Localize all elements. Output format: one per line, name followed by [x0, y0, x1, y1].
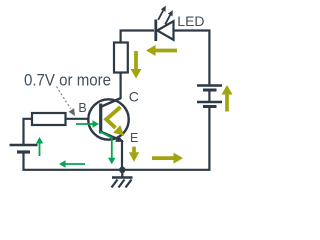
wire: top resistor to LED cathode: [121, 31, 154, 44]
transistor base bar: [99, 104, 102, 134]
wire: base resistor left to left battery top: [24, 119, 34, 144]
base current arrow up (beside left battery): [36, 137, 43, 156]
LED cathode bar: [154, 20, 157, 42]
wire: LED anode to right battery top: [173, 31, 209, 86]
svg-text:C: C: [129, 89, 139, 105]
transistor circle: [88, 99, 128, 139]
wire: left battery bottom to ground junction: [24, 152, 123, 170]
base current arrow right (into base): [76, 120, 99, 128]
battery (left): long plate: [10, 144, 38, 146]
wire: right battery bottom to ground junction: [122, 107, 209, 170]
base current arrow left (bottom wire): [59, 160, 85, 168]
battery (right): short plate 1: [203, 89, 217, 92]
battery (right): inter-cell link: [208, 90, 210, 102]
base current arrow down (emitter path): [100, 132, 116, 165]
ground symbol: [112, 170, 133, 188]
resistor (base, horizontal): [32, 113, 66, 125]
current arrow left (below LED): [146, 45, 177, 56]
svg-text:0.7V or more: 0.7V or more: [24, 71, 111, 89]
ground junction dot: [119, 167, 125, 173]
svg-text:E: E: [130, 131, 138, 145]
battery (right): short plate 2: [203, 105, 217, 108]
transistor collector lead: [102, 98, 122, 107]
wire: base resistor to base: [65, 118, 100, 120]
current arrow inside transistor (bent, olive): [106, 107, 124, 136]
current arrow up (beside right battery): [222, 85, 233, 112]
wire: emitter down to ground junction: [121, 140, 123, 171]
LED emission arrow 1: [158, 6, 166, 20]
leader line (0.7V annotation): [57, 87, 76, 117]
current arrow down (beside LED resistor): [131, 51, 142, 79]
resistor (LED series, vertical): [114, 43, 128, 73]
current arrow right (bottom wire): [152, 153, 183, 164]
LED emission arrow 2: [165, 10, 173, 24]
wire: resistor bottom to collector: [119, 72, 121, 100]
battery (right, 2-cell): long plate 1: [197, 84, 222, 86]
battery (left): short plate: [17, 150, 30, 153]
battery (right): long plate 2: [197, 101, 222, 103]
LED triangle: [157, 21, 173, 40]
svg-text:LED: LED: [177, 13, 204, 29]
svg-text:B: B: [78, 101, 86, 115]
transistor emitter lead with arrow: [102, 132, 125, 142]
current arrow down (emitter): [129, 147, 139, 162]
